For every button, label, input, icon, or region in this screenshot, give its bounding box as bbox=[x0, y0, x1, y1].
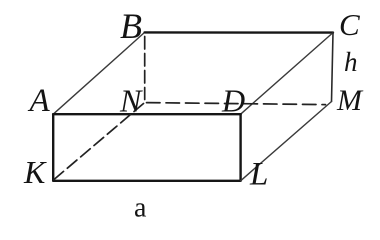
svg-text:C: C bbox=[339, 7, 360, 42]
svg-text:A: A bbox=[28, 83, 51, 119]
edge AB bbox=[53, 32, 144, 114]
svg-text:D: D bbox=[221, 83, 245, 119]
edge KL bbox=[53, 180, 240, 182]
edge AD bbox=[53, 113, 240, 115]
svg-text:L: L bbox=[249, 157, 268, 193]
svg-text:M: M bbox=[336, 84, 364, 117]
edge BC bbox=[145, 31, 333, 34]
edge CD bbox=[241, 33, 333, 115]
edge KN dashed bbox=[54, 104, 144, 180]
svg-text:K: K bbox=[23, 154, 47, 190]
edge NM dashed bbox=[147, 103, 326, 105]
svg-text:a: a bbox=[134, 193, 147, 224]
svg-text:h: h bbox=[344, 47, 358, 77]
svg-text:B: B bbox=[120, 6, 142, 46]
edge CM bbox=[332, 33, 334, 102]
edge BN dashed bbox=[144, 37, 146, 100]
svg-text:N: N bbox=[119, 83, 143, 119]
edge AK bbox=[52, 114, 54, 181]
edge LM bbox=[241, 102, 332, 181]
edge DL bbox=[239, 114, 241, 181]
